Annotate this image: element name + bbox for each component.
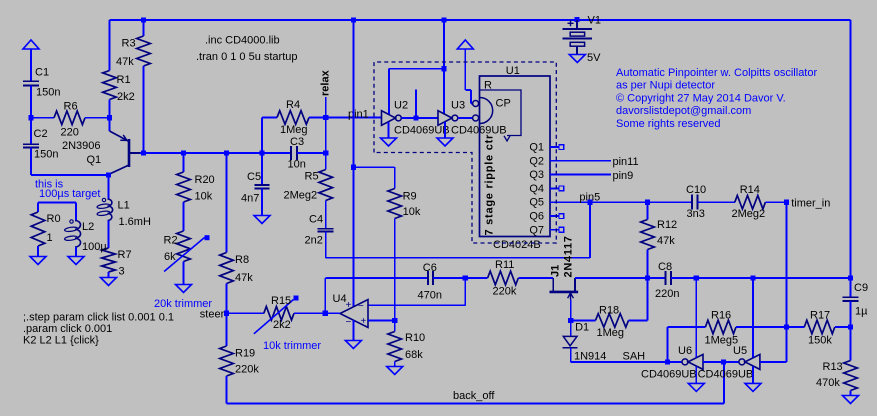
resistor R15 trimmer 2k2 <box>227 312 264 314</box>
wire U6 Vdd stem <box>695 278 697 358</box>
svg-text:1N914: 1N914 <box>574 351 606 363</box>
svg-text:C9: C9 <box>854 282 868 294</box>
node junction R20 top <box>181 150 186 155</box>
node junction C10/R12 <box>645 200 650 205</box>
ground below R13 <box>843 396 859 404</box>
inverter U3 CD4069UB <box>438 111 452 126</box>
svg-text:220k: 220k <box>235 364 259 376</box>
wire U5 Vdd stem <box>752 278 754 358</box>
svg-text:R18: R18 <box>599 304 619 316</box>
transistor J1 2N4117 JFET <box>552 278 554 291</box>
wire R10 to ground <box>394 362 396 367</box>
wire C6 right <box>433 277 465 279</box>
wire R19 to bottom rail <box>226 376 228 404</box>
svg-text:100µs target: 100µs target <box>39 188 100 200</box>
wire R7 to ground <box>108 272 110 278</box>
ground below U5 <box>745 383 761 391</box>
wire J1 drain to C8 node <box>575 277 648 279</box>
svg-text:220: 220 <box>61 127 79 139</box>
svg-text:Q5: Q5 <box>529 197 544 209</box>
wire U4 out up branch <box>324 278 326 313</box>
wire bottom back_off rail <box>227 403 725 405</box>
svg-text:R5: R5 <box>305 171 319 183</box>
wire bottom rail up to U5/U6 node <box>723 362 725 404</box>
capacitor C3 <box>290 146 292 160</box>
svg-text:Automatic Pinpointer w. Colpit: Automatic Pinpointer w. Colpitts oscilla… <box>616 67 817 79</box>
resistor R6 <box>31 117 54 119</box>
svg-text:2k2: 2k2 <box>273 319 291 331</box>
svg-text:1µ: 1µ <box>855 306 868 318</box>
counter U1 CD4024B body <box>480 76 551 237</box>
svg-text:L2: L2 <box>82 221 94 233</box>
svg-text:470k: 470k <box>816 377 840 389</box>
svg-text:.tran 0 1 0 5u startup: .tran 0 1 0 5u startup <box>196 51 298 63</box>
inductor L2 <box>75 203 77 221</box>
svg-text:C10: C10 <box>686 184 706 196</box>
wire C5 to ground <box>261 189 263 216</box>
svg-text:6k: 6k <box>164 251 176 263</box>
svg-text:U3: U3 <box>451 99 465 111</box>
svg-text:pin1: pin1 <box>348 108 369 120</box>
svg-text:C3: C3 <box>290 136 304 148</box>
wire R3 to base node <box>143 66 145 153</box>
svg-text:R11: R11 <box>495 259 514 271</box>
svg-text:−: − <box>346 317 352 328</box>
svg-text:C1: C1 <box>35 67 49 79</box>
svg-text:pin9: pin9 <box>613 170 634 182</box>
svg-text:R14: R14 <box>740 184 760 196</box>
wire target loop top <box>38 202 76 204</box>
wire timer_in vertical <box>786 202 788 327</box>
wire R4 right to junction <box>309 117 326 119</box>
capacitor C1 <box>23 80 39 82</box>
svg-text:CD4024B: CD4024B <box>493 239 541 251</box>
wire C1-C2 vertical <box>30 86 32 145</box>
node junction U6in/U5out/backoff <box>721 359 726 364</box>
resistor R2 trimmer 6k <box>177 231 191 262</box>
inverter U5 CD4069UB <box>745 354 760 369</box>
wire stub above U2-U3 node <box>415 90 417 119</box>
wire R4 left branch <box>261 118 263 154</box>
resistor R1 <box>103 71 117 100</box>
svg-text:V1: V1 <box>588 15 601 27</box>
ground below R10 <box>387 367 403 375</box>
node junction V1 plus <box>574 17 579 22</box>
wire R11 to J1 source <box>518 277 553 279</box>
wire U6 Vss stem <box>695 366 697 383</box>
svg-text:2N4117: 2N4117 <box>562 235 574 277</box>
svg-text:davorslistdepot@gmail.com: davorslistdepot@gmail.com <box>616 105 751 117</box>
wire right rail down to C9 <box>850 20 852 297</box>
wire U4 + input <box>368 319 395 321</box>
wire U5 Vss stem <box>752 366 754 383</box>
resistor R8 <box>226 153 228 253</box>
resistor R13 <box>850 327 852 361</box>
wire U2 Vdd horizontal <box>389 68 444 70</box>
ground below U3 <box>444 122 446 138</box>
svg-text:10n: 10n <box>288 159 306 171</box>
svg-text:+: + <box>361 316 367 327</box>
svg-text:pin11: pin11 <box>613 156 639 168</box>
svg-text:R13: R13 <box>823 361 843 373</box>
svg-text:U1: U1 <box>506 65 520 77</box>
diode D1 1N914 <box>570 320 572 336</box>
svg-text:R1: R1 <box>117 74 131 86</box>
wire U5 in up to timer node <box>760 361 787 363</box>
node junction R5 top <box>323 150 328 155</box>
capacitor C6 <box>427 271 429 285</box>
svg-text:150n: 150n <box>34 149 58 161</box>
svg-text:R19: R19 <box>235 348 255 360</box>
resistor R5 <box>325 153 327 170</box>
wire R20 to R2 <box>183 202 185 231</box>
wire L1 to R7 <box>108 221 110 249</box>
svg-text:5V: 5V <box>587 52 601 64</box>
wire U4 output <box>325 312 340 314</box>
svg-text:68k: 68k <box>405 349 423 361</box>
svg-text:timer_in: timer_in <box>791 198 830 210</box>
svg-text:CP: CP <box>496 98 511 110</box>
node junction U3 Vdd top rail <box>441 17 446 22</box>
svg-text:R16: R16 <box>711 310 731 322</box>
node junction relax <box>323 115 328 120</box>
svg-text:2n2: 2n2 <box>305 235 323 247</box>
wire R9 bottom to U4+ node <box>394 219 396 321</box>
capacitor C4 <box>318 228 334 230</box>
svg-text:D1: D1 <box>575 322 589 334</box>
svg-text:;.step param click list 0.001: ;.step param click list 0.001 0.1 <box>23 312 174 324</box>
node junction J1 gate / D1 / R18 <box>568 318 573 323</box>
resistor R0 <box>31 212 45 246</box>
svg-text:7 stage ripple ctr: 7 stage ripple ctr <box>484 134 496 236</box>
inductor L1 <box>108 175 110 199</box>
wire C4 bottom long run to pin5 net <box>325 231 327 257</box>
wire R16 right to timer node <box>736 326 787 328</box>
node junction R16/R17/timer/U5in <box>784 324 789 329</box>
wire R15 to U4 out <box>294 312 325 314</box>
node junction Q1 base <box>141 150 146 155</box>
ground below V1 <box>569 55 585 63</box>
svg-text:steer: steer <box>200 309 225 321</box>
wire D1 cathode to SAH <box>570 348 572 362</box>
svg-text:CD4069UB: CD4069UB <box>641 369 697 381</box>
node junction steer <box>224 311 229 316</box>
ground below R7 <box>101 278 117 286</box>
svg-text:Q6: Q6 <box>529 211 544 223</box>
wire U4- feedback vertical <box>464 278 466 305</box>
svg-text:150k: 150k <box>808 335 832 347</box>
wire +5V top rail <box>110 19 851 21</box>
svg-text:C2: C2 <box>34 128 48 140</box>
svg-text:2Meg2: 2Meg2 <box>732 208 766 220</box>
resistor R12 <box>647 202 649 219</box>
svg-text:220k: 220k <box>493 286 517 298</box>
svg-text:R6: R6 <box>64 101 78 113</box>
ground below U4 <box>345 341 361 349</box>
svg-text:47k: 47k <box>116 56 134 68</box>
svg-text:R12: R12 <box>657 219 677 231</box>
node junction timer_in <box>784 200 789 205</box>
ground below R2 <box>176 285 192 293</box>
wire relax stub <box>325 97 327 118</box>
ground below R0 <box>30 257 46 265</box>
svg-text:3: 3 <box>119 266 125 278</box>
svg-text:R15: R15 <box>271 295 291 307</box>
resistor R11 <box>465 277 487 279</box>
svg-text:SAH: SAH <box>623 351 646 363</box>
resistor R17 <box>787 326 805 328</box>
svg-text:2k2: 2k2 <box>117 91 135 103</box>
svg-text:2Meg2: 2Meg2 <box>284 190 318 202</box>
svg-text:R0: R0 <box>47 213 61 225</box>
node junction Q1 collector <box>106 172 111 177</box>
svg-text:Q2: Q2 <box>529 155 544 167</box>
wire R8 to steer node <box>226 284 228 314</box>
svg-text:R3: R3 <box>122 38 136 50</box>
op-amp inverter U2 CD4069UB <box>382 111 396 126</box>
capacitor C8 <box>648 277 666 279</box>
svg-text:R4: R4 <box>286 99 300 111</box>
op-amp U4 <box>340 300 368 328</box>
wire R9 top <box>353 166 394 168</box>
svg-text:C6: C6 <box>423 262 437 274</box>
resistor R4 <box>277 111 309 125</box>
wire R0 to ground <box>37 246 39 257</box>
resistor R14 <box>735 195 766 209</box>
resistor R16 <box>668 326 706 328</box>
node junction R8 top <box>224 150 229 155</box>
wire U4- feedback horizontal <box>368 304 465 306</box>
svg-text:U4: U4 <box>333 293 347 305</box>
capacitor C9 <box>843 296 859 298</box>
svg-text:100µ: 100µ <box>82 241 107 253</box>
svg-text:R2: R2 <box>164 234 178 246</box>
wire U3 out to U1 CP <box>458 117 473 119</box>
svg-text:U2: U2 <box>394 99 408 111</box>
wire U3 Vdd vertical from rail <box>443 20 445 115</box>
resistor R10 <box>394 320 396 331</box>
svg-text:1Meg: 1Meg <box>280 124 308 136</box>
svg-text:4n7: 4n7 <box>241 193 259 205</box>
svg-text:R: R <box>484 80 492 92</box>
svg-text:R20: R20 <box>195 174 215 186</box>
node junction SAH/U6 out/R16 <box>665 359 670 364</box>
svg-text:R9: R9 <box>403 190 417 202</box>
wire pin1 to U2 input <box>326 117 382 119</box>
wire C1 top <box>30 49 32 81</box>
node junction U4 out <box>323 311 328 316</box>
svg-text:R8: R8 <box>235 254 249 266</box>
transistor Q1 2N3906 <box>128 139 131 167</box>
node junction U2-U3 stub <box>413 115 418 120</box>
ground (rotated) above U1 reset <box>457 40 473 49</box>
svg-text:C8: C8 <box>658 261 672 273</box>
ground below C5 <box>254 216 270 224</box>
node junction R3 top <box>141 17 146 22</box>
resistor R19 <box>226 313 228 346</box>
svg-text:1.6mH: 1.6mH <box>119 216 151 228</box>
wire L2 to ground <box>75 247 77 257</box>
inverter U6 CD4069UB <box>668 361 683 363</box>
wire U6 in to U5 out <box>703 361 724 363</box>
svg-text:K2 L2 L1 {click}: K2 L2 L1 {click} <box>23 335 99 347</box>
wire C10 to R14 <box>697 201 735 203</box>
wire U1 R pin <box>464 49 466 90</box>
node junction R12/C8 <box>645 275 650 280</box>
svg-text:.param click 0.001: .param click 0.001 <box>23 323 112 335</box>
node junction C9/R13/R17 <box>848 324 853 329</box>
node junction R9 tap <box>351 165 356 170</box>
wire U4 V- stem <box>352 320 354 340</box>
svg-text:J1: J1 <box>549 265 561 277</box>
svg-text:47k: 47k <box>657 235 675 247</box>
wire relax junction down to R5 node <box>325 118 327 154</box>
svg-text:Q1: Q1 <box>529 142 544 154</box>
node junction R6 left <box>28 115 33 120</box>
dashed oscillator box <box>374 62 556 243</box>
svg-text:.inc CD4000.lib: .inc CD4000.lib <box>205 35 280 47</box>
svg-text:Q1: Q1 <box>87 154 102 166</box>
node junction C5/R4 left <box>259 150 264 155</box>
svg-text:Q4: Q4 <box>529 183 544 195</box>
svg-text:150n: 150n <box>36 87 60 99</box>
wire R2 to ground <box>183 262 185 285</box>
svg-text:as per Nupi detector: as per Nupi detector <box>616 80 715 92</box>
svg-text:470n: 470n <box>418 290 442 302</box>
node junction U4 supply tap on top rail <box>351 17 356 22</box>
svg-text:10k: 10k <box>195 191 213 203</box>
svg-text:47k: 47k <box>235 272 253 284</box>
ground below L2 <box>68 257 84 265</box>
node junction U4+/R9/R10 <box>392 318 397 323</box>
svg-text:U6: U6 <box>678 345 692 357</box>
svg-text:1: 1 <box>47 232 53 244</box>
svg-text:relax: relax <box>319 69 331 96</box>
ground (rotated) above C1 <box>23 40 39 49</box>
wire R3 top lead <box>143 20 145 36</box>
resistor R9 <box>394 167 396 188</box>
svg-text:back_off: back_off <box>453 390 495 402</box>
node junction U5 Vdd tap <box>750 275 755 280</box>
wire C6 left <box>325 277 428 279</box>
node junction right rail C8 line <box>848 275 853 280</box>
wire R18 right up to drain node <box>629 319 648 321</box>
wire C8 right to +5V rail <box>671 277 851 279</box>
voltage source V1 battery <box>568 20 574 26</box>
wire J1 gate down <box>570 300 572 321</box>
node junction U6 Vdd tap <box>694 275 699 280</box>
svg-text:CD4069UB: CD4069UB <box>698 369 754 381</box>
wire C3 right to R5 node <box>297 152 326 154</box>
ground below U2 <box>388 122 390 138</box>
wire R16 left vertical <box>667 327 669 362</box>
ground below U6 <box>688 383 704 391</box>
svg-text:Q7: Q7 <box>529 224 544 236</box>
svg-text:10k: 10k <box>403 206 421 218</box>
resistor R20 <box>183 153 185 172</box>
wire mid rail base to C3 <box>140 152 291 154</box>
wire U2 Vdd <box>388 69 390 114</box>
svg-text:220n: 220n <box>655 288 679 300</box>
resistor R3 <box>137 36 151 66</box>
wire R14 to timer_in <box>765 201 786 203</box>
svg-text:© Copyright 27 May 2014 Davor: © Copyright 27 May 2014 Davor V. <box>616 92 786 104</box>
node junction pin5 tap <box>587 200 592 205</box>
wire R12 bottom <box>647 250 649 279</box>
svg-text:Q3: Q3 <box>529 169 544 181</box>
node junction R6 right on emitter line <box>107 115 112 120</box>
svg-text:C5: C5 <box>247 171 261 183</box>
svg-text:2N3906: 2N3906 <box>62 140 101 152</box>
svg-text:U5: U5 <box>733 345 747 357</box>
svg-text:CD4069UB: CD4069UB <box>394 125 450 137</box>
capacitor C2 <box>23 143 39 145</box>
svg-text:1Meg: 1Meg <box>597 327 625 339</box>
svg-text:L1: L1 <box>118 200 130 212</box>
resistor R7 <box>102 248 116 272</box>
wire U4 V+ supply vertical <box>352 20 354 307</box>
svg-text:10k trimmer: 10k trimmer <box>263 340 321 352</box>
svg-text:R7: R7 <box>118 249 132 261</box>
svg-text:R10: R10 <box>405 332 425 344</box>
svg-text:−: − <box>358 301 364 312</box>
capacitor C10 <box>691 195 693 210</box>
wire R1 to emitter <box>109 100 111 132</box>
svg-text:C4: C4 <box>309 213 323 225</box>
wire U2 out to U3 in <box>401 117 438 119</box>
node junction U3 Vdd tap <box>441 66 446 71</box>
svg-text:R17: R17 <box>810 310 830 322</box>
wire C2 bottom to collector node <box>30 148 32 175</box>
resistor R18 <box>571 319 596 321</box>
svg-text:3n3: 3n3 <box>687 208 705 220</box>
wire R17 right <box>835 326 851 328</box>
wire R5 to C4 <box>325 201 327 229</box>
svg-text:Some rights reserved: Some rights reserved <box>616 118 721 130</box>
capacitor C5 <box>261 153 263 185</box>
wire rail corner down to R1 <box>109 20 111 71</box>
wire C9 bottom <box>850 301 852 327</box>
node junction C6/R11/U4- tap <box>463 275 468 280</box>
wire R13 to ground <box>850 391 852 396</box>
